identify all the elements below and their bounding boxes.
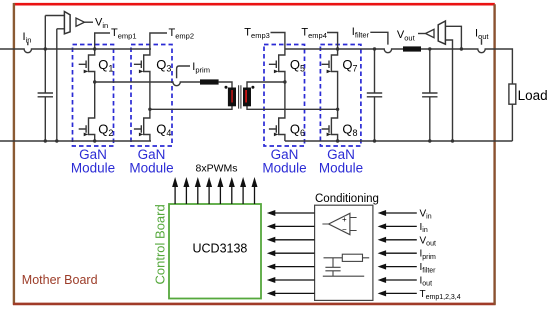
- svg-text:UCD3138: UCD3138: [193, 242, 248, 256]
- svg-text:+: +: [342, 215, 347, 224]
- svg-text:−: −: [342, 225, 347, 234]
- svg-text:Control Board: Control Board: [153, 204, 168, 284]
- svg-text:Module: Module: [319, 161, 363, 176]
- svg-text:Mother Board: Mother Board: [22, 273, 98, 287]
- svg-text:8xPWMs: 8xPWMs: [196, 162, 238, 174]
- svg-text:Load: Load: [518, 88, 548, 103]
- svg-text:Module: Module: [129, 161, 173, 176]
- svg-text:Conditioning: Conditioning: [315, 193, 379, 205]
- svg-text:Module: Module: [262, 161, 306, 176]
- svg-text:Module: Module: [71, 161, 115, 176]
